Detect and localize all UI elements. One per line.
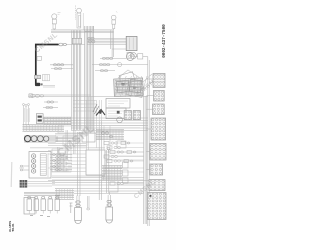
- left connector stack: [50, 153, 72, 171]
- ignition coil box: [126, 36, 137, 50]
- center connector column: [96, 130, 144, 186]
- bottom rows right 2: [74, 189, 144, 194]
- CDI box: [86, 150, 105, 175]
- dark connector grid: [20, 180, 28, 188]
- condenser cylinder 1: [75, 196, 82, 224]
- wire bundle to coil: [87, 38, 126, 44]
- bank to right trunk: [71, 118, 148, 131]
- right block B2: [154, 90, 165, 101]
- bundle bullets: [87, 37, 95, 42]
- tiny label row: [96, 126, 145, 128]
- dark battery cable: [36, 45, 59, 86]
- right block B3: [153, 104, 165, 115]
- svg-text:0002-437-7500: 0002-437-7500: [162, 24, 167, 58]
- inter-cyl wires: [87, 196, 90, 210]
- speedometer assembly: [29, 152, 51, 179]
- mesh rect 4: [52, 149, 71, 172]
- row2 bullets: [99, 63, 121, 67]
- speedo left bits: [20, 165, 30, 171]
- block stub wires: [146, 79, 153, 208]
- connector pair b: [43, 106, 58, 108]
- gauge bar: [25, 136, 56, 142]
- grid wires right: [27, 182, 55, 187]
- right block B8 (big): [148, 193, 167, 220]
- multi connector tangle: [114, 70, 154, 97]
- fuse wire row: [28, 95, 91, 97]
- gauge wires right: [56, 137, 81, 142]
- mesh horizontals: [30, 148, 150, 181]
- mesh rect 3: [63, 136, 87, 146]
- hatch box right of cable: [43, 75, 50, 81]
- mesh extra h: [48, 151, 144, 173]
- wire trunk B (harness x84-95): [85, 26, 94, 130]
- cyl area small bits: [70, 203, 73, 213]
- small grid block a: [124, 111, 131, 120]
- horn to trunk wires: [122, 57, 149, 226]
- row y96 to trunk: [91, 96, 148, 98]
- dark terminal blob: [35, 83, 43, 86]
- mesh verticals mid: [58, 130, 76, 172]
- wire trunk C (x110-113): [111, 30, 114, 49]
- lamp bulb L1 (turn signal left): [52, 13, 61, 31]
- lamp bulb L3 (turn signal right): [111, 11, 117, 30]
- cable end connector: [59, 43, 85, 46]
- dense harness bank: [23, 114, 72, 132]
- wire trunk B corner: [85, 26, 94, 33]
- wire row 2: [92, 64, 122, 66]
- right block B5: [150, 143, 166, 160]
- right block B4: [151, 118, 166, 140]
- ignition coil cylinder 2: [106, 195, 113, 223]
- bank top wires: [24, 192, 60, 195]
- switch dark bits: [93, 104, 120, 116]
- gauge bulbs: [25, 136, 59, 142]
- wire row 3: [95, 70, 115, 72]
- small box mid: [117, 141, 126, 148]
- right block B1: [153, 74, 165, 88]
- bottom rows right: [52, 178, 144, 186]
- row1 bullets: [102, 57, 112, 59]
- right block B7: [149, 180, 165, 191]
- connector on cable (hatch): [35, 75, 41, 79]
- small grid block b: [133, 111, 140, 120]
- right block B6: [150, 164, 163, 175]
- mesh extra v: [87, 97, 111, 151]
- spark plug cap: [127, 52, 136, 58]
- mesh rect 5: [55, 160, 69, 171]
- small ring terminals column: [23, 104, 30, 126]
- right inner trunk: [144, 96, 147, 224]
- mesh verticals 2: [99, 121, 101, 200]
- row3 bullets: [100, 70, 107, 72]
- connector pair a: [44, 101, 58, 103]
- corner label text: [8, 221, 15, 232]
- wire: headlight bus: [51, 30, 114, 33]
- B8 dark pin: [150, 195, 152, 197]
- bottom harness bank: [55, 189, 74, 200]
- mesh h mid: [48, 134, 96, 146]
- switch circle: [117, 117, 123, 123]
- horn: [126, 53, 143, 61]
- switch cluster box: [106, 99, 130, 119]
- mesh rect 1: [58, 126, 88, 133]
- trunk A connector: [72, 38, 81, 44]
- wires from terminal: [43, 86, 55, 88]
- wire row 1: [100, 57, 126, 59]
- relay-switch bank: [24, 196, 59, 214]
- left mid h lines: [74, 101, 96, 112]
- cyl2 wire corner: [109, 181, 118, 195]
- wire trunk A (harness x74-80): [72, 30, 81, 130]
- left connector rows: [50, 65, 74, 69]
- mesh rect 2: [82, 132, 95, 142]
- lamp bulb L2 (headlight): [75, 6, 83, 31]
- fold mark: [10, 162, 13, 187]
- bank small marks: [30, 216, 50, 217]
- mesh verticals 3: [106, 150, 108, 193]
- fuse bullets: [29, 94, 44, 98]
- svg-text:'80-81: '80-81: [11, 223, 15, 232]
- mesh verticals: [78, 132, 80, 196]
- left bullets: [53, 64, 63, 70]
- plug wire: [112, 49, 126, 58]
- connector on dark wire: [37, 56, 41, 60]
